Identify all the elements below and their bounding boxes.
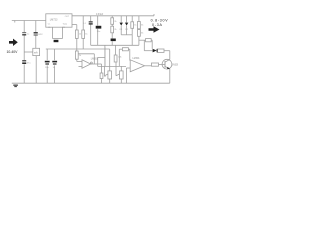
svg-text:47u: 47u [27, 62, 31, 64]
svg-text:2k: 2k [79, 55, 82, 57]
svg-text:3k: 3k [141, 24, 144, 26]
svg-text:D2: D2 [125, 29, 129, 31]
svg-text:OUT: OUT [65, 16, 70, 18]
svg-text:5k: 5k [141, 32, 144, 34]
svg-text:LM723: LM723 [50, 19, 58, 22]
svg-text:10u: 10u [97, 31, 101, 33]
svg-text:2k: 2k [114, 29, 117, 31]
svg-text:BZX: BZX [38, 34, 43, 36]
svg-text:10u: 10u [45, 67, 49, 69]
svg-text:10-40V: 10-40V [7, 50, 19, 54]
svg-text:LM301: LM301 [133, 58, 141, 60]
svg-text:2k: 2k [114, 21, 117, 23]
svg-text:0.1: 0.1 [83, 23, 87, 25]
svg-text:1u: 1u [53, 67, 56, 69]
svg-text:Vadj: Vadj [63, 23, 67, 25]
svg-text:10k: 10k [118, 56, 122, 58]
svg-text:1u: 1u [27, 34, 30, 36]
svg-text:LM301: LM301 [91, 58, 99, 60]
svg-text:0.33uF: 0.33uF [96, 14, 104, 16]
svg-text:1k: 1k [85, 34, 88, 36]
svg-text:2N3055: 2N3055 [172, 64, 178, 66]
svg-text:CL: CL [48, 24, 51, 26]
svg-text:0-3A: 0-3A [152, 23, 163, 27]
svg-text:D1: D1 [120, 29, 124, 31]
svg-text:mA: mA [34, 52, 38, 55]
svg-text:1k: 1k [134, 25, 137, 27]
svg-text:1k: 1k [104, 76, 107, 78]
